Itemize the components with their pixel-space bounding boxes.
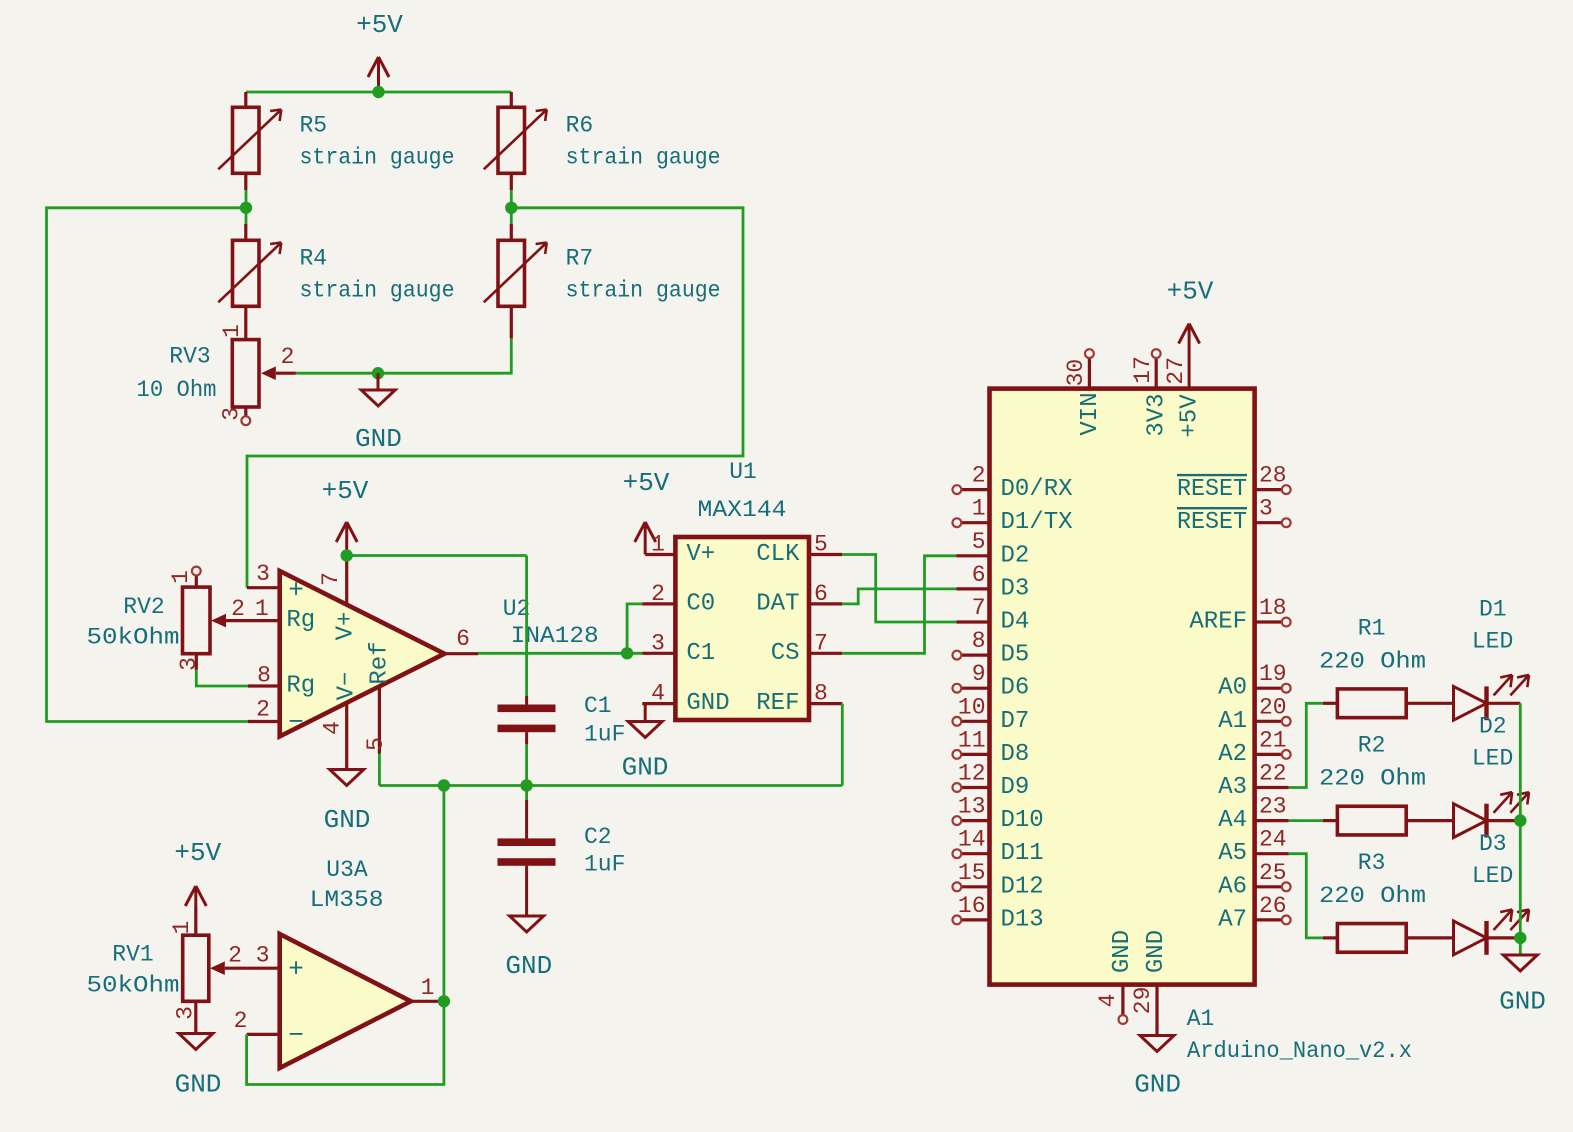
svg-text:21: 21 [1259, 727, 1287, 753]
wire reference rail [379, 784, 842, 787]
wire output node to U1 pin 2 C0 [627, 604, 642, 653]
wire R5 top lead [244, 92, 247, 107]
svg-text:RESET: RESET [1177, 509, 1247, 536]
junction bridge bottom GND [372, 367, 384, 379]
svg-text:C1: C1 [686, 640, 715, 667]
ground RV1 [175, 1034, 222, 1100]
pin 21 A2 [1218, 727, 1290, 768]
resistor R7 strain gauge [484, 240, 721, 306]
op-amp U3A LM358 [228, 857, 444, 1068]
pin 10 D7 [953, 694, 1030, 735]
svg-text:strain gauge: strain gauge [566, 278, 721, 304]
svg-text:1: 1 [168, 570, 194, 584]
svg-text:3: 3 [256, 943, 270, 969]
pin 22 A3 [1218, 761, 1289, 802]
wire +5V rail U2 to C1 [347, 554, 527, 557]
wire U1 CLK to Arduino D4 [842, 555, 956, 623]
svg-text:11: 11 [958, 727, 986, 753]
svg-text:GND: GND [1143, 930, 1170, 973]
resistor R4 strain gauge [218, 240, 454, 306]
svg-text:+: + [288, 955, 304, 985]
svg-text:RV1: RV1 [112, 942, 153, 968]
svg-text:1uF: 1uF [584, 722, 625, 748]
wire U3A output to rail [442, 786, 445, 1002]
svg-text:GND: GND [1109, 930, 1136, 973]
junction U2 output node [621, 647, 633, 659]
wire RV2 pin3 to U2 pin 8 [196, 670, 248, 686]
svg-text:strain gauge: strain gauge [300, 278, 455, 304]
svg-text:U3A: U3A [326, 857, 368, 883]
svg-text:6: 6 [814, 581, 828, 607]
ground U2 pin 4 [324, 770, 371, 836]
svg-text:8: 8 [972, 628, 986, 654]
svg-text:2: 2 [281, 344, 295, 370]
resistor R1 220 Ohm [1319, 615, 1454, 717]
pin 9 D6 [953, 661, 1030, 702]
svg-text:7: 7 [814, 630, 828, 656]
wire R7 bottom to GND junction [378, 305, 511, 373]
svg-text:RESET: RESET [1177, 476, 1247, 503]
svg-text:24: 24 [1259, 827, 1287, 853]
pin 1 D1/TX [953, 496, 1073, 537]
svg-text:20: 20 [1259, 694, 1287, 720]
pin 15 D12 [953, 860, 1044, 901]
svg-text:3V3: 3V3 [1143, 393, 1170, 436]
wire A4 to R2 [1289, 819, 1323, 822]
svg-text:2: 2 [234, 1008, 248, 1034]
svg-text:GND: GND [1134, 1070, 1181, 1100]
svg-text:D7: D7 [1001, 708, 1030, 735]
LED D1 [1454, 596, 1530, 720]
LED D2 [1454, 714, 1530, 838]
svg-text:D6: D6 [1001, 675, 1030, 702]
svg-text:Rg: Rg [286, 607, 315, 634]
svg-text:3: 3 [172, 1006, 198, 1020]
svg-text:Ref: Ref [367, 641, 394, 684]
svg-text:220 Ohm: 220 Ohm [1319, 766, 1426, 792]
svg-text:50kOhm: 50kOhm [87, 973, 180, 999]
svg-text:AREF: AREF [1189, 609, 1247, 636]
svg-text:19: 19 [1259, 661, 1287, 687]
svg-text:A6: A6 [1218, 873, 1247, 900]
junction U2 V+ [341, 549, 353, 561]
wire U2 output to U1 [478, 652, 642, 655]
svg-text:C1: C1 [584, 693, 612, 719]
svg-text:6: 6 [972, 562, 986, 588]
pin 5 D2 [956, 529, 1029, 570]
label Arduino_Nano_v2.x value [1187, 1038, 1412, 1064]
svg-text:−: − [288, 708, 304, 738]
svg-text:GND: GND [622, 753, 669, 783]
svg-text:D11: D11 [1001, 840, 1044, 867]
svg-text:1: 1 [255, 596, 269, 622]
svg-text:C2: C2 [584, 824, 612, 850]
svg-text:D12: D12 [1001, 873, 1044, 900]
svg-text:Arduino_Nano_v2.x: Arduino_Nano_v2.x [1187, 1038, 1412, 1064]
pin 4 GND bottom [1095, 930, 1136, 1024]
svg-text:D5: D5 [1001, 642, 1030, 669]
svg-text:VIN: VIN [1077, 392, 1104, 435]
power +5V RV1 [174, 838, 221, 906]
svg-text:7: 7 [318, 572, 344, 586]
svg-text:CLK: CLK [756, 541, 800, 568]
junction bridge top [372, 86, 384, 98]
pin 8 D5 [953, 628, 1030, 669]
label A1 reference [1187, 1006, 1215, 1032]
svg-text:4: 4 [651, 681, 665, 707]
svg-text:10 Ohm: 10 Ohm [137, 377, 217, 403]
svg-text:GND: GND [1499, 987, 1546, 1017]
wire LED cathode rail [1519, 703, 1522, 955]
svg-text:DAT: DAT [756, 590, 799, 617]
svg-text:18: 18 [1259, 595, 1287, 621]
svg-text:A7: A7 [1218, 906, 1247, 933]
svg-text:MAX144: MAX144 [698, 497, 787, 523]
svg-text:D3: D3 [1479, 831, 1507, 857]
svg-text:−: − [288, 1021, 304, 1051]
svg-text:D1/TX: D1/TX [1001, 509, 1073, 536]
wire bridge top rail [246, 91, 511, 94]
ground bridge [355, 373, 402, 454]
svg-text:R7: R7 [566, 246, 594, 272]
svg-text:V+: V+ [686, 541, 715, 568]
svg-text:U1: U1 [729, 459, 757, 485]
resistor R5 strain gauge [218, 107, 454, 173]
junction rail at D2 [1514, 814, 1526, 826]
svg-text:LED: LED [1472, 746, 1513, 772]
junction rail at C2 [520, 779, 532, 791]
svg-text:A5: A5 [1218, 840, 1247, 867]
svg-text:3: 3 [651, 630, 665, 656]
svg-text:16: 16 [958, 893, 986, 919]
IC A1 Arduino_Nano_v2.x body [990, 389, 1255, 985]
wire A3 to R1 [1289, 703, 1323, 787]
pin 16 D13 [953, 893, 1044, 934]
wire R6 top lead [510, 92, 513, 107]
pin 30 VIN [1063, 349, 1104, 435]
resistor R6 strain gauge [484, 107, 721, 173]
svg-text:2: 2 [231, 596, 245, 622]
svg-text:D2: D2 [1479, 714, 1507, 740]
svg-text:GND: GND [505, 951, 552, 981]
svg-text:8: 8 [257, 663, 271, 689]
svg-text:INA128: INA128 [511, 623, 599, 649]
junction U3A output [438, 995, 450, 1007]
pin 12 D9 [953, 761, 1030, 802]
pin 18 AREF [1189, 595, 1290, 636]
wire U2 pin5 Ref to reference rail [378, 754, 381, 786]
svg-text:15: 15 [958, 860, 986, 886]
svg-text:2: 2 [256, 697, 270, 723]
op-amp U2 INA128 [226, 556, 599, 770]
wire U1 REF to reference rail [841, 704, 844, 786]
svg-text:+5V: +5V [623, 468, 670, 498]
pin 23 A4 [1218, 794, 1289, 835]
svg-text:A1: A1 [1187, 1006, 1215, 1032]
IC U1 MAX144 [642, 459, 842, 720]
power +5V bridge top [356, 10, 403, 92]
pin 14 D11 [953, 827, 1044, 868]
svg-text:26: 26 [1259, 893, 1287, 919]
svg-text:R1: R1 [1358, 615, 1386, 641]
junction bridge right [505, 202, 517, 214]
svg-text:R4: R4 [300, 246, 328, 272]
wire RV3 wiper to GND junction [296, 372, 378, 375]
svg-text:+5V: +5V [1176, 394, 1203, 438]
svg-text:Rg: Rg [286, 673, 315, 700]
svg-text:6: 6 [456, 626, 470, 652]
pin 6 D3 [956, 562, 1029, 603]
capacitor C1 1uF [498, 556, 626, 786]
svg-text:8: 8 [814, 681, 828, 707]
svg-text:D9: D9 [1001, 774, 1030, 801]
svg-text:A1: A1 [1218, 708, 1247, 735]
svg-text:D10: D10 [1001, 807, 1044, 834]
pin 11 D8 [953, 727, 1030, 768]
svg-text:3: 3 [176, 657, 202, 671]
svg-text:R5: R5 [300, 113, 328, 139]
junction rail at U3A branch [438, 779, 450, 791]
pin 2 D0/RX [953, 463, 1073, 504]
svg-text:D1: D1 [1479, 596, 1507, 622]
pin 24 A5 [1218, 827, 1289, 868]
svg-text:LED: LED [1472, 863, 1513, 889]
wire U3A feedback pin2 to output [247, 1001, 444, 1084]
LED D3 [1454, 831, 1530, 955]
svg-text:REF: REF [756, 690, 799, 717]
svg-text:D2: D2 [1001, 542, 1030, 569]
svg-text:A3: A3 [1218, 774, 1247, 801]
svg-text:D13: D13 [1001, 906, 1044, 933]
wire bridge right node to U2 pin 3 [247, 208, 743, 588]
pin 27 +5V / power +5V arduino [1163, 277, 1214, 438]
ground C2 [505, 916, 552, 981]
wire U1 CS to Arduino D2 [842, 556, 956, 654]
potentiometer RV1 50kOhm [87, 906, 247, 1034]
svg-text:2: 2 [972, 463, 986, 489]
pin 19 A0 [1218, 661, 1290, 702]
svg-text:4: 4 [1095, 994, 1121, 1008]
svg-text:D3: D3 [1001, 575, 1030, 602]
svg-text:A0: A0 [1218, 675, 1247, 702]
svg-text:4: 4 [320, 721, 346, 735]
svg-text:A4: A4 [1218, 807, 1247, 834]
svg-text:12: 12 [958, 761, 986, 787]
svg-text:D4: D4 [1001, 609, 1030, 636]
svg-text:29: 29 [1130, 987, 1156, 1015]
svg-text:2: 2 [228, 943, 242, 969]
svg-text:14: 14 [958, 827, 986, 853]
svg-text:GND: GND [175, 1070, 222, 1100]
svg-text:D8: D8 [1001, 741, 1030, 768]
svg-text:3: 3 [219, 407, 245, 421]
svg-text:R2: R2 [1358, 733, 1386, 759]
svg-text:+5V: +5V [174, 838, 221, 868]
svg-text:10: 10 [958, 694, 986, 720]
pin 20 A1 [1218, 694, 1290, 735]
svg-text:1: 1 [972, 496, 986, 522]
junction bridge left [240, 202, 252, 214]
svg-text:9: 9 [972, 661, 986, 687]
wire R5 bottom to R4 [244, 173, 247, 240]
svg-text:GND: GND [324, 805, 371, 835]
svg-text:23: 23 [1259, 794, 1287, 820]
svg-text:1: 1 [219, 324, 245, 338]
svg-text:30: 30 [1063, 359, 1089, 387]
pin 13 D10 [953, 794, 1044, 835]
svg-text:27: 27 [1163, 357, 1189, 385]
svg-text:R6: R6 [566, 113, 594, 139]
capacitor C2 1uF [498, 786, 626, 917]
svg-text:28: 28 [1259, 463, 1287, 489]
pin 29 GND bottom + ground [1130, 930, 1181, 1100]
svg-text:V+: V+ [333, 612, 360, 641]
pin 28 RESET [1177, 463, 1291, 504]
power +5V U2 [322, 476, 369, 556]
wire U1 DAT to Arduino D3 [842, 589, 956, 604]
svg-text:R3: R3 [1358, 850, 1386, 876]
svg-text:CS: CS [771, 640, 800, 667]
svg-text:17: 17 [1130, 356, 1156, 384]
svg-text:220 Ohm: 220 Ohm [1319, 883, 1426, 909]
pin 25 A6 [1218, 860, 1290, 901]
svg-text:strain gauge: strain gauge [300, 145, 455, 171]
svg-text:5: 5 [363, 737, 389, 751]
ground U1 pin 4 [622, 704, 669, 783]
power +5V U1 [623, 468, 670, 555]
svg-text:RV2: RV2 [123, 594, 164, 620]
pin 3 RESET [1177, 496, 1291, 537]
svg-text:3: 3 [1259, 496, 1273, 522]
svg-text:1: 1 [421, 975, 435, 1001]
pin 26 A7 [1218, 893, 1290, 934]
svg-text:strain gauge: strain gauge [566, 145, 721, 171]
resistor R2 220 Ohm [1319, 733, 1454, 835]
svg-text:+: + [288, 576, 304, 606]
svg-text:13: 13 [958, 794, 986, 820]
svg-text:220 Ohm: 220 Ohm [1319, 648, 1426, 674]
svg-text:LED: LED [1472, 628, 1513, 654]
svg-text:25: 25 [1259, 860, 1287, 886]
svg-text:C0: C0 [686, 590, 715, 617]
svg-text:+5V: +5V [1167, 277, 1214, 307]
svg-text:1: 1 [651, 532, 665, 558]
svg-text:3: 3 [256, 561, 270, 587]
svg-text:1uF: 1uF [584, 852, 625, 878]
svg-text:22: 22 [1259, 761, 1287, 787]
svg-text:GND: GND [686, 690, 729, 717]
potentiometer RV2 50kOhm [87, 567, 227, 671]
svg-text:5: 5 [814, 532, 828, 558]
svg-text:2: 2 [651, 581, 665, 607]
junction rail at D3 [1514, 932, 1526, 944]
pin 17 3V3 [1130, 349, 1171, 436]
svg-text:GND: GND [355, 424, 402, 454]
wire bridge left node to U2 pin 2 [47, 208, 249, 722]
svg-text:50kOhm: 50kOhm [87, 625, 180, 651]
svg-text:RV3: RV3 [169, 344, 210, 370]
svg-text:+5V: +5V [322, 476, 369, 506]
svg-text:LM358: LM358 [310, 887, 384, 913]
svg-text:A2: A2 [1218, 741, 1247, 768]
wire A5 to R3 [1289, 854, 1323, 938]
potentiometer RV3 10 Ohm [137, 305, 296, 425]
svg-text:+5V: +5V [356, 10, 403, 40]
pin 7 D4 [956, 595, 1029, 636]
resistor R3 220 Ohm [1319, 850, 1454, 952]
wire R6 bottom to R7 [510, 173, 513, 240]
svg-text:V−: V− [334, 672, 361, 701]
svg-text:5: 5 [972, 529, 986, 555]
ground LED rail [1499, 955, 1546, 1017]
svg-text:7: 7 [972, 595, 986, 621]
svg-text:1: 1 [169, 921, 195, 935]
svg-text:D0/RX: D0/RX [1001, 476, 1073, 503]
